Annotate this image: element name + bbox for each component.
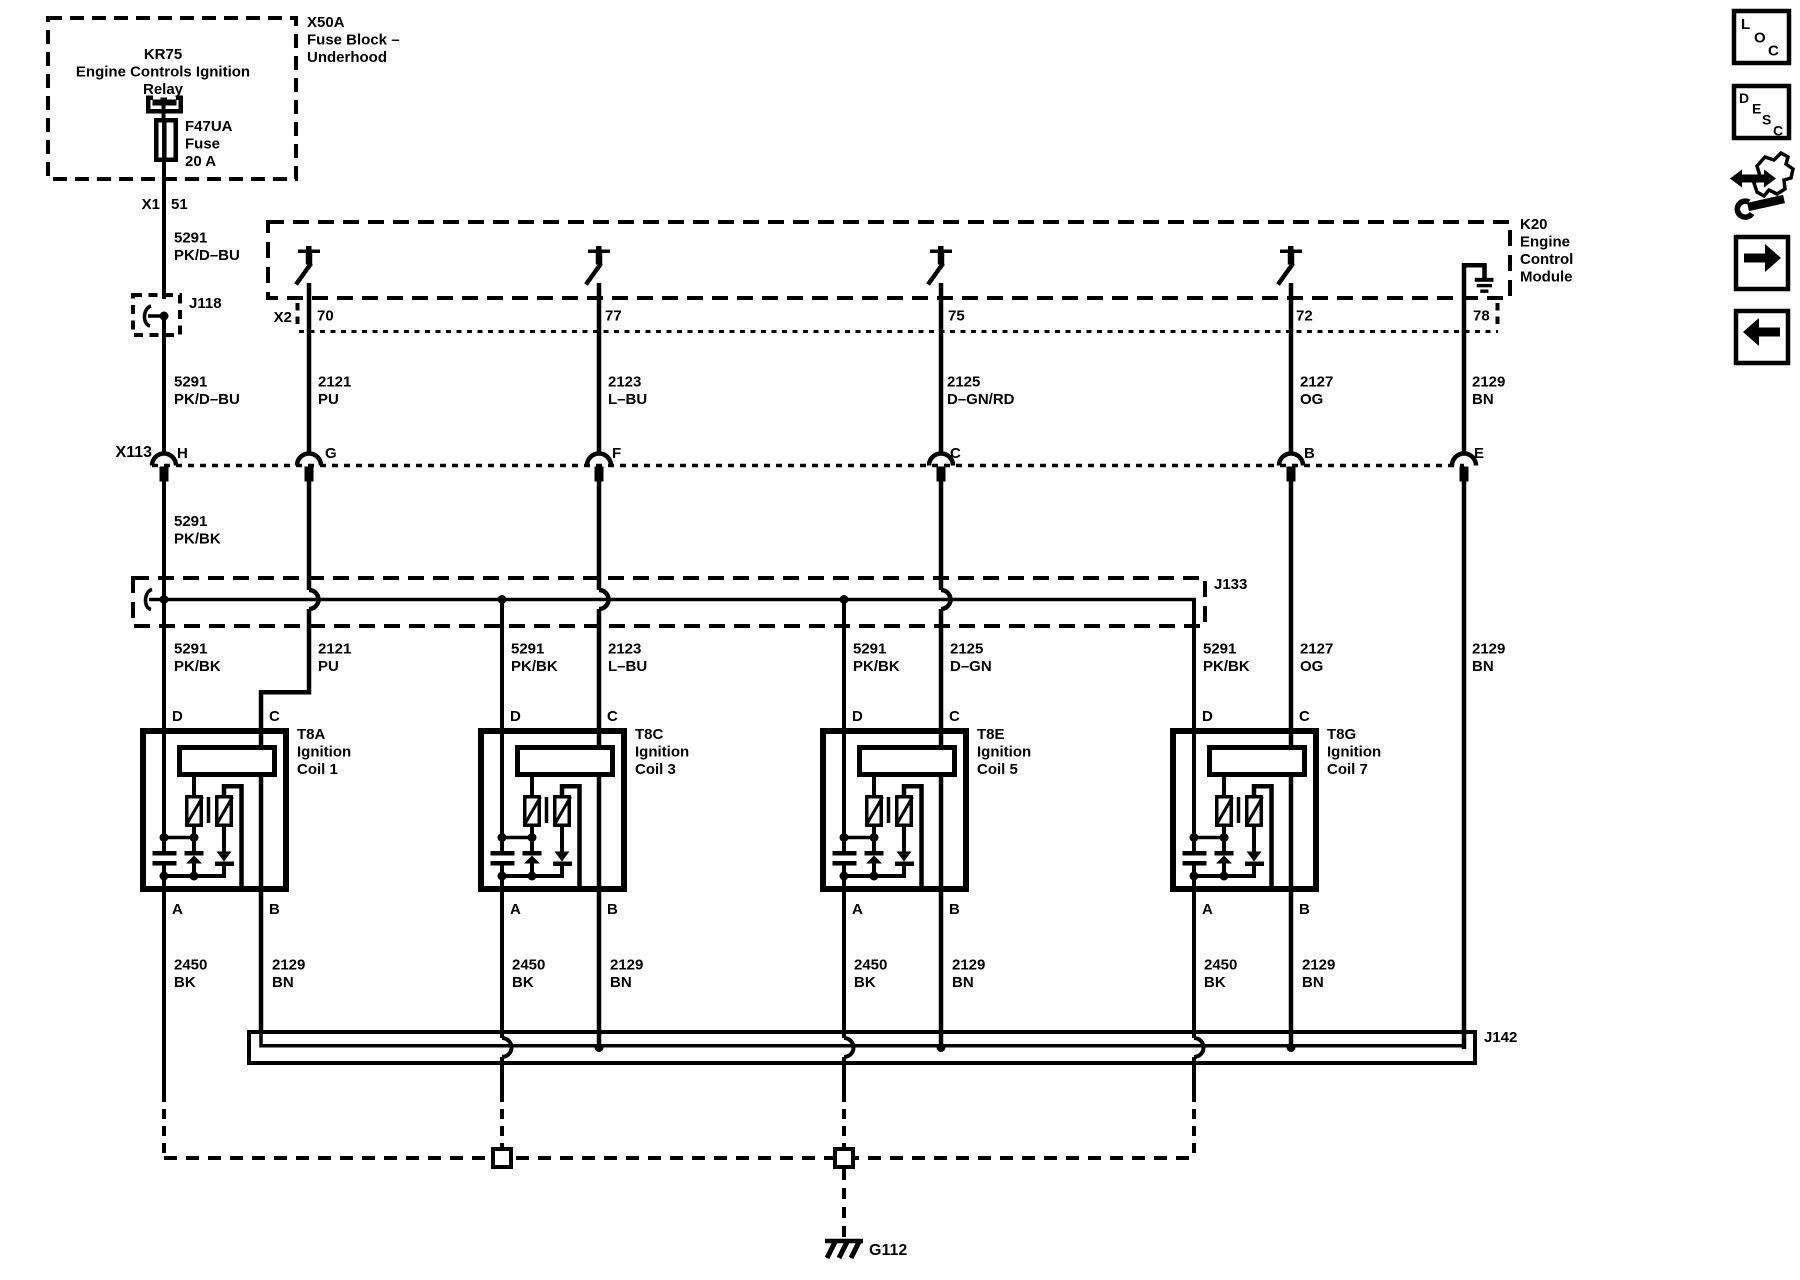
svg-text:2129: 2129	[952, 957, 985, 974]
wire 2129 BN coil 1 into J142	[261, 905, 1464, 1046]
coil T8A primary module bar	[180, 748, 275, 775]
label T8G Ignition Coil 7	[1327, 726, 1381, 778]
svg-text:PU: PU	[318, 658, 339, 675]
svg-text:5291: 5291	[511, 641, 544, 658]
wire 5291 PK/BK X113 to J133	[162, 481, 166, 599]
wire 2121 jog to coil 1 pin C	[261, 609, 311, 750]
J133 junction dot coil 5	[840, 595, 849, 604]
label 5291 PK/BK	[174, 513, 221, 548]
coil T8E junction row	[840, 833, 879, 842]
svg-text:A: A	[172, 901, 183, 918]
ignition coil T8G box	[1173, 731, 1316, 889]
splice J118 pigtail	[144, 306, 168, 326]
wire 2450 BK coil 7	[1194, 863, 1204, 1158]
label 2450 BK coil 3	[512, 957, 545, 992]
svg-text:PK/BK: PK/BK	[174, 531, 221, 548]
svg-text:B: B	[607, 901, 618, 918]
coil T8G primary winding	[1216, 774, 1233, 826]
svg-text:D–GN/RD: D–GN/RD	[947, 391, 1015, 408]
wire 2123 hop over J133	[599, 590, 608, 609]
label 2129 BN coil 7	[1302, 957, 1335, 992]
svg-text:PK/BK: PK/BK	[1203, 658, 1250, 675]
X113 pin C	[929, 445, 961, 482]
coil T8E primary winding	[866, 774, 883, 826]
svg-text:5291: 5291	[174, 513, 207, 530]
coil T8C capacitor	[491, 851, 515, 866]
coil T8E core	[887, 797, 891, 823]
label 2129 BN coil 3	[610, 957, 643, 992]
svg-text:2450: 2450	[854, 957, 887, 974]
wire 5291 PK/D-BU label (upper)	[174, 230, 240, 265]
label 2121 PU	[318, 374, 351, 409]
svg-text:F47UA: F47UA	[185, 118, 233, 135]
J142 junction dot coil 5	[937, 1043, 946, 1052]
svg-text:A: A	[852, 901, 863, 918]
coil T8G diode	[1245, 825, 1264, 878]
X113 pin B	[1279, 445, 1315, 482]
coil T8A zener diode	[185, 825, 204, 878]
coil T8E capacitor	[833, 851, 857, 866]
svg-text:BN: BN	[610, 974, 632, 991]
wire 2129 below X113 to J142	[1462, 481, 1467, 1049]
wire coil 3 pin D feed	[500, 600, 504, 854]
svg-text:2121: 2121	[318, 374, 351, 391]
svg-text:Fuse: Fuse	[185, 136, 220, 153]
svg-text:J142: J142	[1484, 1029, 1517, 1046]
wire 2125 hop over J133	[941, 590, 951, 609]
svg-text:2450: 2450	[174, 957, 207, 974]
svg-text:2121: 2121	[318, 641, 351, 658]
svg-text:2129: 2129	[1302, 957, 1335, 974]
svg-text:2125: 2125	[947, 374, 980, 391]
svg-text:OG: OG	[1300, 391, 1323, 408]
coil T8A junction row	[160, 833, 199, 842]
wire 2121 PU from driver to X113	[307, 283, 312, 454]
svg-text:B: B	[269, 901, 280, 918]
svg-text:C: C	[1299, 708, 1310, 725]
svg-text:D: D	[510, 708, 521, 725]
button LOC	[1734, 11, 1789, 63]
inline connector square left	[493, 1149, 511, 1167]
svg-text:5291: 5291	[174, 641, 207, 658]
wire 5291 PK/D-BU label (lower)	[174, 374, 240, 409]
label 2450 BK coil 5	[854, 957, 887, 992]
label K20 Engine Control Module	[1520, 216, 1573, 286]
wire coil 1 pin D feed	[162, 600, 166, 854]
fuse F47UA 20 A	[156, 120, 176, 160]
wire 2121 below X113	[307, 481, 312, 590]
svg-text:BK: BK	[854, 974, 876, 991]
svg-text:2125: 2125	[950, 641, 983, 658]
wire 2125 D-GN/RD from driver to X113	[939, 283, 944, 454]
label T8C Ignition Coil 3	[635, 726, 689, 778]
svg-text:2127: 2127	[1300, 374, 1333, 391]
svg-text:B: B	[1304, 445, 1315, 462]
coil T8C diode	[553, 825, 572, 878]
wire 2129 BN coil 5 to J142	[939, 1030, 944, 1047]
svg-text:K20: K20	[1520, 216, 1548, 233]
svg-text:C: C	[269, 708, 280, 725]
coil T8C zener diode	[523, 825, 542, 878]
label F47UA Fuse 20 A	[185, 118, 233, 170]
coil T8G junction row	[1190, 833, 1229, 842]
svg-text:BK: BK	[512, 974, 534, 991]
label J118	[189, 295, 222, 312]
svg-text:BK: BK	[1204, 974, 1226, 991]
svg-text:E: E	[1752, 101, 1761, 117]
X113 pin F	[587, 445, 621, 482]
svg-text:H: H	[177, 445, 188, 462]
X2 pin 77	[605, 308, 622, 325]
svg-text:A: A	[1202, 901, 1213, 918]
wire 2121 hop over J133	[309, 590, 319, 609]
label 2129 BN	[1472, 374, 1505, 409]
ECM driver output switch 4	[1278, 246, 1302, 285]
J133 junction dot H	[160, 595, 169, 604]
wire 2129 BN coil 7 to J142	[1289, 1030, 1294, 1047]
X2 pin 78	[1473, 308, 1490, 325]
coil T8E diode	[895, 825, 914, 878]
ignition coil T8C box	[481, 731, 624, 889]
J142 junction dot coil 7	[1287, 1043, 1296, 1052]
ECM driver output switch 3	[928, 246, 952, 285]
svg-text:G112: G112	[869, 1242, 907, 1259]
wire 2123 L-BU from driver to X113	[597, 283, 602, 454]
ignition coil T8A box	[143, 731, 286, 889]
svg-text:C: C	[949, 708, 960, 725]
wire fuse output through fuse block edge	[162, 160, 166, 299]
relay KR75 contact symbol	[146, 96, 183, 114]
svg-text:D: D	[1202, 708, 1213, 725]
coil T8G lower junction row	[1190, 872, 1256, 881]
svg-text:T8C: T8C	[635, 726, 664, 743]
svg-text:BN: BN	[1472, 391, 1494, 408]
wire 2450 BK coil 1	[162, 863, 166, 1158]
coil T8C pin C-B wire through	[597, 750, 602, 1030]
svg-text:PK/BK: PK/BK	[174, 658, 221, 675]
coil T8A primary winding	[186, 774, 203, 826]
button DESC	[1734, 86, 1789, 139]
splice pack J133 dashed box	[133, 578, 1205, 626]
X113 pin G	[297, 445, 337, 482]
X113 pin H	[152, 445, 188, 482]
coil T8E pin C-B wire through	[939, 750, 944, 1030]
coil T8E pin letters	[852, 708, 960, 918]
J133 internal bus wire	[149, 598, 1194, 628]
svg-text:X50A: X50A	[307, 14, 345, 31]
svg-text:78: 78	[1473, 308, 1490, 325]
svg-text:BN: BN	[1472, 658, 1494, 675]
svg-text:BK: BK	[174, 974, 196, 991]
coil T8A pin letters	[172, 708, 280, 918]
J133 junction dot coil 3	[498, 595, 507, 604]
svg-text:S: S	[1762, 112, 1771, 128]
label X50A Fuse Block - Underhood	[307, 14, 400, 66]
coil T8A capacitor	[153, 851, 177, 866]
svg-text:J118: J118	[189, 295, 222, 312]
label T8E Ignition Coil 5	[977, 726, 1031, 778]
svg-text:T8A: T8A	[297, 726, 326, 743]
svg-text:PK/BK: PK/BK	[853, 658, 900, 675]
wire coil 5 pin D feed	[842, 600, 846, 854]
X2 pin 72	[1296, 308, 1313, 325]
svg-text:BN: BN	[1302, 974, 1324, 991]
coil T8A diode	[215, 825, 234, 878]
svg-text:2129: 2129	[272, 957, 305, 974]
dashed wire to G112	[842, 1169, 846, 1237]
wire 2129 BN from ECM ground to X113	[1462, 263, 1467, 454]
svg-text:Coil 3: Coil 3	[635, 761, 676, 778]
svg-text:T8G: T8G	[1327, 726, 1356, 743]
J142 junction dot coil 3	[595, 1043, 604, 1052]
svg-text:Control: Control	[1520, 251, 1573, 268]
coil T8G secondary winding	[1246, 786, 1272, 888]
connector X1 pin 51	[142, 196, 188, 213]
button next (right arrow)	[1736, 237, 1788, 289]
label 2450 BK coil 1	[174, 957, 207, 992]
coil T8G primary module bar	[1210, 748, 1305, 775]
wire relay to fuse	[162, 104, 166, 122]
label 5291 PK/BK below J133	[511, 641, 558, 676]
svg-text:O: O	[1754, 30, 1766, 47]
svg-text:X1: X1	[142, 196, 160, 213]
label 2129 BN coil 1	[272, 957, 305, 992]
coil T8G pin letters	[1202, 708, 1310, 918]
splice J118 dashed box	[133, 295, 180, 335]
coil T8C junction row	[498, 833, 537, 842]
label 2125 D&#8211;GN below J133	[950, 641, 992, 676]
label 2129 BN below J133	[1472, 641, 1505, 676]
svg-text:X113: X113	[116, 444, 153, 461]
label 2127 OG below J133	[1300, 641, 1333, 676]
svg-text:2127: 2127	[1300, 641, 1333, 658]
svg-text:Coil 7: Coil 7	[1327, 761, 1368, 778]
ground G112	[825, 1240, 863, 1258]
svg-text:2123: 2123	[608, 374, 641, 391]
svg-text:L–BU: L–BU	[608, 391, 647, 408]
svg-text:PU: PU	[318, 391, 339, 408]
wire 2127 OG from driver to X113	[1289, 283, 1294, 454]
svg-text:Underhood: Underhood	[307, 49, 387, 66]
ground distribution dashed wire	[164, 1156, 1194, 1160]
svg-text:D–GN: D–GN	[950, 658, 992, 675]
wire 2450 BK coil 5	[844, 863, 854, 1147]
svg-text:Engine: Engine	[1520, 234, 1570, 251]
label G112	[869, 1242, 907, 1259]
icon wiring navigation (arrows + wrench)	[1730, 153, 1793, 217]
svg-text:2129: 2129	[1472, 374, 1505, 391]
label 2127 OG	[1300, 374, 1333, 409]
coil T8C pin letters	[510, 708, 618, 918]
label KR75 Engine Controls Ignition Relay	[76, 46, 250, 98]
coil T8G pin C-B wire through	[1289, 750, 1294, 1030]
coil T8C primary module bar	[518, 748, 613, 775]
svg-text:Ignition: Ignition	[977, 744, 1031, 761]
svg-text:2129: 2129	[610, 957, 643, 974]
wire 2129 BN coil 3 to J142	[597, 1030, 602, 1047]
connector X113 row	[116, 444, 1464, 466]
wire 5291 to X113	[162, 316, 166, 454]
svg-text:5291: 5291	[1203, 641, 1236, 658]
svg-text:2123: 2123	[608, 641, 641, 658]
svg-text:2450: 2450	[1204, 957, 1237, 974]
svg-text:E: E	[1474, 445, 1484, 462]
svg-text:X2: X2	[274, 309, 292, 326]
svg-text:C: C	[607, 708, 618, 725]
wire coil 7 pin D feed	[1192, 600, 1196, 854]
svg-text:Ignition: Ignition	[635, 744, 689, 761]
svg-text:Ignition: Ignition	[297, 744, 351, 761]
svg-text:5291: 5291	[174, 374, 207, 391]
coil T8E primary module bar	[860, 748, 955, 775]
svg-text:75: 75	[948, 308, 965, 325]
coil T8G zener diode	[1215, 825, 1234, 878]
fuse block X50A dashed box	[48, 18, 296, 179]
svg-text:BN: BN	[272, 974, 294, 991]
svg-text:B: B	[949, 901, 960, 918]
label 5291 PK/BK below J133	[853, 641, 900, 676]
svg-text:F: F	[612, 445, 621, 462]
wire 2125 to coil 5 pin C	[939, 609, 944, 750]
ECM K20 dashed box	[268, 222, 1510, 298]
svg-text:5291: 5291	[174, 230, 207, 247]
coil T8C lower junction row	[498, 872, 564, 881]
svg-text:Ignition: Ignition	[1327, 744, 1381, 761]
coil T8E lower junction row	[840, 872, 906, 881]
svg-text:BN: BN	[952, 974, 974, 991]
wire 2123 below X113	[597, 481, 602, 590]
wire 2123 to coil 3 pin C	[597, 609, 602, 750]
svg-text:2450: 2450	[512, 957, 545, 974]
X2 pin 70	[317, 308, 334, 325]
ECM driver output switch 1	[296, 246, 320, 285]
svg-text:Coil 5: Coil 5	[977, 761, 1018, 778]
X113 pin E	[1452, 445, 1484, 482]
label T8A Ignition Coil 1	[297, 726, 351, 778]
svg-text:20 A: 20 A	[185, 153, 216, 170]
coil T8C core	[545, 797, 549, 823]
svg-text:C: C	[1773, 123, 1783, 139]
label J142	[1484, 1029, 1517, 1046]
svg-text:J133: J133	[1214, 576, 1247, 593]
coil T8C secondary winding	[554, 786, 580, 888]
splice pack J142 outline	[249, 1032, 1475, 1063]
ECM internal ground pin 78	[1464, 265, 1494, 293]
label 2123 L-BU	[608, 374, 647, 409]
svg-text:Fuse Block –: Fuse Block –	[307, 32, 400, 49]
svg-text:B: B	[1299, 901, 1310, 918]
ECM driver output switch 2	[586, 246, 610, 285]
svg-text:OG: OG	[1300, 658, 1323, 675]
svg-text:KR75: KR75	[144, 46, 182, 63]
coil T8A lower junction row	[160, 872, 226, 881]
svg-text:70: 70	[317, 308, 334, 325]
label J133	[1214, 576, 1247, 593]
label 2129 BN coil 5	[952, 957, 985, 992]
coil T8C primary winding	[524, 774, 541, 826]
button back (left arrow)	[1736, 311, 1788, 363]
svg-text:Relay: Relay	[143, 81, 184, 98]
coil T8G core	[1237, 797, 1241, 823]
svg-text:L–BU: L–BU	[608, 658, 647, 675]
svg-text:PK/D–BU: PK/D–BU	[174, 391, 240, 408]
ignition coil T8E box	[823, 731, 966, 889]
inline connector square right	[835, 1149, 853, 1167]
label 5291 PK/BK below J133	[174, 641, 221, 676]
svg-text:2129: 2129	[1472, 641, 1505, 658]
label 5291 PK/BK below J133	[1203, 641, 1250, 676]
coil T8G capacitor	[1183, 851, 1207, 866]
svg-text:D: D	[1739, 90, 1749, 106]
label 2121 PU below J133	[318, 641, 351, 676]
label 2125 D-GN/RD	[947, 374, 1015, 409]
J133 pigtail	[145, 590, 152, 610]
svg-text:G: G	[325, 445, 337, 462]
svg-text:T8E: T8E	[977, 726, 1005, 743]
svg-text:C: C	[950, 445, 961, 462]
svg-text:77: 77	[605, 308, 622, 325]
svg-text:Coil 1: Coil 1	[297, 761, 338, 778]
svg-text:Engine Controls Ignition: Engine Controls Ignition	[76, 64, 250, 81]
svg-text:PK/BK: PK/BK	[511, 658, 558, 675]
wire 2127 below X113 to coil 7	[1289, 481, 1294, 750]
coil T8E zener diode	[865, 825, 884, 878]
svg-text:51: 51	[171, 196, 188, 213]
wire 2125 below X113	[939, 481, 944, 590]
coil T8A core	[207, 797, 211, 823]
svg-text:72: 72	[1296, 308, 1313, 325]
svg-text:5291: 5291	[853, 641, 886, 658]
svg-text:D: D	[172, 708, 183, 725]
coil T8A pin C-B wire through	[259, 750, 264, 1030]
svg-text:PK/D–BU: PK/D–BU	[174, 247, 240, 264]
coil T8E secondary winding	[896, 786, 922, 888]
svg-text:A: A	[510, 901, 521, 918]
X2 pin 75	[948, 308, 965, 325]
label 2123 L&#8211;BU below J133	[608, 641, 647, 676]
label 2450 BK coil 7	[1204, 957, 1237, 992]
svg-text:L: L	[1741, 16, 1750, 33]
connector X2 row	[274, 303, 1498, 332]
coil T8A secondary winding	[216, 786, 242, 888]
wire 2450 BK coil 3	[502, 863, 512, 1147]
svg-text:Module: Module	[1520, 269, 1573, 286]
svg-text:D: D	[852, 708, 863, 725]
svg-text:C: C	[1768, 43, 1779, 60]
